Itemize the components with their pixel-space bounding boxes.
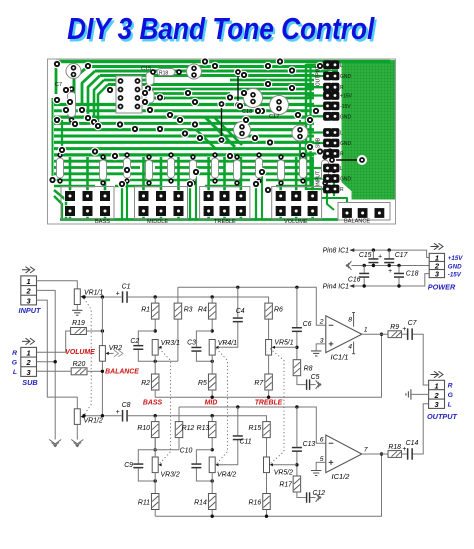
connector J4 POWER [429,253,444,277]
svg-text:VR3/2: VR3/2 [161,471,180,478]
op-amp IC1/2 [326,435,362,473]
resistor R9 [388,331,402,338]
svg-text:VOLUME: VOLUME [65,349,95,356]
svg-text:C3: C3 [187,340,196,347]
svg-text:R3: R3 [184,307,193,314]
resistor R14 [208,494,216,510]
wire SUB pin3 to R20 [36,370,71,372]
title [0,11,442,47]
node C18 top [397,264,400,267]
svg-text:OUTPUT: OUTPUT [427,412,458,421]
svg-text:C17: C17 [269,114,279,120]
node R14 bottom [211,515,214,518]
svg-text:C5: C5 [311,374,320,381]
ground left of mid rail [346,261,351,270]
ground under VR1/2 [71,440,83,447]
svg-text:4: 4 [348,344,352,351]
capacitor C3 with bracket [196,331,212,361]
node C16 top [363,264,366,267]
svg-text:1: 1 [27,349,31,358]
node R13 top [211,414,214,417]
svg-text:R18: R18 [159,71,168,77]
PCB scattered pads [53,60,62,69]
node pot VR4/2 bottom [211,479,214,482]
svg-text:VR3/1: VR3/1 [161,340,180,347]
svg-text:C6: C6 [303,321,312,328]
svg-text:VR5/2: VR5/2 [274,469,293,476]
svg-text:C10: C10 [180,447,193,454]
svg-text:3: 3 [320,337,324,344]
svg-text:IC1/2: IC1/2 [332,472,351,481]
svg-text:R10: R10 [137,425,150,432]
wire VR1/2 bottom to ground [76,424,78,439]
svg-text:R8: R8 [304,366,313,373]
wire balance vertical [101,297,103,416]
svg-text:R16: R16 [249,499,262,506]
svg-text:7: 7 [364,447,368,454]
capacitor C6 [296,287,298,359]
svg-text:+15V: +15V [340,94,352,100]
wire feedback top line channel2 [179,407,326,443]
svg-text:VR4/2: VR4/2 [217,471,236,478]
node R7 bottom [267,396,270,399]
svg-text:R20: R20 [73,361,86,368]
PCB jumper wires [222,72,363,160]
connector J3 SUB [21,347,37,376]
dashed link VR5/1-VR5/2 [270,349,284,465]
capacitor C2 with bracket [138,331,178,361]
svg-text:C8: C8 [122,402,131,409]
INPUT connector arrow [22,267,35,273]
svg-text:TREBLE: TREBLE [255,400,283,407]
resistor R19 [71,328,87,335]
node balance tap top [101,295,104,298]
wire IC1/2 output [362,453,388,455]
connector J1 INPUT [21,276,37,305]
svg-text:VOLUME: VOLUME [284,219,308,225]
wire OUTPUT pin2 to ground [411,393,428,395]
svg-text:G: G [448,392,454,399]
ground (chevron) left bus [49,440,61,447]
wire INPUT pin3 to VR1/2 [37,300,78,409]
wire feedback top line channel1 [178,287,326,325]
svg-text:1: 1 [434,381,438,390]
capacitor C14 [407,448,413,460]
wire INPUT pin1 to VR1/1 [37,281,78,289]
svg-text:R9: R9 [390,324,399,331]
ground rail mid [351,265,429,267]
svg-text:IC1/1: IC1/1 [331,352,349,361]
wire IC1/1 +input to ground [316,344,326,351]
svg-text:C7: C7 [408,320,418,327]
svg-text:C9: C9 [124,462,133,469]
wire feedback bottom line channel2 [155,454,381,516]
wire VR1/1 wiper to C1 [84,296,122,298]
resistor R10 [154,416,156,450]
svg-text:R14: R14 [194,499,207,506]
svg-text:L: L [340,166,343,172]
node C17 top [388,248,391,251]
svg-text:1: 1 [364,327,368,334]
svg-text:C15: C15 [141,66,151,72]
resistor R6 [268,319,270,340]
svg-text:8: 8 [348,317,352,324]
wire C14 to OUTPUT pin3 [413,404,429,454]
PCB resistor outline R18 [157,69,175,76]
svg-text:R4: R4 [198,307,207,314]
wire feedback bottom line channel1 [155,334,381,397]
svg-text:C4: C4 [236,308,245,315]
ground at OUTPUT pin2 [406,389,411,399]
svg-text:1: 1 [27,277,31,286]
node pot VR3/1 bottom [154,360,157,363]
power rail -15V [354,274,429,286]
resistor R15 [266,438,268,458]
capacitor C15 [372,250,374,265]
dashed link VR3/1-VR3/2 [159,349,170,465]
capacitor C17 [388,250,390,265]
svg-text:C14: C14 [406,440,419,447]
capacitor C10 with bracket [196,450,212,481]
resistor R18 [388,451,402,458]
svg-text:R11: R11 [138,499,150,506]
PCB traces [56,60,390,63]
dashed link VR4/1-VR4/2 [216,349,227,465]
PCB potentiometer footprints [61,187,114,220]
potentiometer VR3/1 [152,340,161,356]
svg-text:2: 2 [433,391,439,400]
PCB board outline [48,59,396,224]
node C13 top [295,405,298,408]
svg-text:+15V: +15V [448,255,463,262]
node pot VR4/1 top [211,329,214,332]
svg-text:TREBLE: TREBLE [214,219,236,225]
svg-text:R12: R12 [182,425,195,432]
POWER connector arrow [431,243,444,249]
wire main line channel1 to R6 [128,297,269,303]
svg-text:C18: C18 [406,271,419,278]
svg-text:Pin4 IC1: Pin4 IC1 [323,284,350,291]
potentiometer VR1/1 [74,289,83,305]
resistor R17 [293,476,301,492]
svg-text:R: R [448,383,453,390]
node pot VR3/2 top [154,448,157,451]
SUB connector arrow [22,338,35,344]
svg-text:GND: GND [448,263,462,270]
wire VR1/2 wiper to C8 [84,415,122,417]
resistor R8 [293,360,301,376]
capacitor C9 with bracket [138,450,179,481]
svg-text:R13: R13 [197,425,210,432]
PCB layout [48,57,396,225]
wire R19 to balance tap [86,330,102,332]
svg-text:R: R [340,187,344,193]
capacitor C1 [122,291,128,303]
capacitor C16 [363,266,365,287]
svg-text:R2: R2 [141,380,150,387]
wire INPUT pin2 to ground bus [37,290,56,439]
svg-text:+: + [402,326,406,333]
capacitor C4 [219,287,238,347]
node C11 top [236,405,239,408]
svg-text:5: 5 [320,456,324,463]
svg-text:+: + [388,268,392,275]
node R20 right [101,370,104,373]
svg-text:6: 6 [320,437,324,444]
capacitor C18 [398,266,400,287]
svg-text:2: 2 [26,358,32,367]
svg-text:C16: C16 [348,276,361,283]
svg-text:+: + [116,409,120,416]
node R5 bottom [211,396,214,399]
node R16 bottom [265,515,268,518]
svg-text:L: L [340,131,343,137]
dashed link VR1/1-VR1/2 [84,298,91,415]
wire SUB pin1 to R19 [36,331,70,352]
node R1 top [154,295,157,298]
svg-text:GND: GND [340,177,352,183]
svg-text:R: R [340,85,344,91]
resistor R20 [71,368,87,375]
wire main line channel2 to R15 [128,416,267,422]
svg-text:L: L [340,63,343,69]
wire SUB pin2 to ground bus [36,361,55,363]
IC1/1 power stubs pin8 pin4 [352,313,355,354]
node C18 bottom [397,284,400,287]
node VR1/1 wiper [82,295,85,298]
svg-text:-15V: -15V [448,271,462,278]
resistor R11 [151,494,159,510]
capacitor C7 [407,328,413,340]
node C15 top [372,248,375,251]
svg-text:C13: C13 [303,441,316,448]
svg-text:-15V: -15V [340,104,351,110]
OUTPUT connector arrow [431,371,444,377]
potentiometer VR5/1 [266,340,275,356]
svg-text:SUB: SUB [22,378,37,387]
PCB vertical resistor outlines row [57,158,64,178]
svg-text:R1: R1 [141,307,150,314]
ground right of C5 [316,380,321,389]
wire C6-R8 node to VR5/1 wiper [273,346,297,348]
resistor R12 [178,407,180,450]
node C6 top [295,286,298,289]
svg-text:R17: R17 [279,482,293,489]
node R4 top [211,295,214,298]
svg-text:2: 2 [319,319,324,326]
potentiometer VR4/1 [209,340,218,356]
node C17 bottom [388,264,391,267]
svg-text:Pin8 IC1: Pin8 IC1 [323,248,350,255]
node IC1/2 output [380,452,383,455]
svg-text:C17: C17 [395,252,409,259]
svg-text:GND: GND [340,74,352,80]
potentiometer VR1/2 [74,409,83,425]
svg-text:+: + [378,254,382,261]
ground at IC1/1 +input [311,351,321,356]
svg-text:SUB: SUB [316,137,322,148]
svg-text:BASS: BASS [143,400,163,407]
node SUB pin2 ground bus [54,360,57,363]
node VR1/2 wiper [82,414,85,417]
node pot VR3/1 top [154,329,157,332]
resistor R2 [151,374,159,390]
node C16 bottom [363,284,366,287]
PCB side connectors [323,60,332,69]
PCB balance connector [338,203,390,221]
svg-text:R19: R19 [72,320,85,327]
wire C7 to OUTPUT pin1 [413,334,429,385]
svg-text:L: L [13,369,17,376]
node C15 bottom [372,264,375,267]
capacitor C13 [296,407,298,476]
wire IC1/1 output [362,333,388,335]
resistor R7 [265,374,273,390]
svg-text:C2: C2 [130,338,139,345]
PCB capacitor C15 C16 outlines [146,72,154,85]
svg-text:MID: MID [205,400,218,407]
svg-text:R: R [340,152,344,158]
svg-text:VR5/1: VR5/1 [274,340,293,347]
svg-text:VR4/1: VR4/1 [218,340,237,347]
svg-text:2: 2 [26,287,32,296]
svg-text:R7: R7 [254,380,264,387]
node C4 top [236,286,239,289]
potentiometer VR2 [99,346,108,362]
resistor R4 [211,297,213,331]
node R10 top [154,414,157,417]
node pot VR3/2 bottom [154,479,157,482]
node pot VR4/2 top [211,448,214,451]
svg-text:R: R [12,350,17,357]
resistor R1 [154,297,156,331]
node R19 right [101,329,104,332]
node pot VR4/1 bottom [211,360,214,363]
svg-text:OUTPUT: OUTPUT [316,66,322,87]
svg-text:C1: C1 [122,283,131,290]
svg-text:VR1/2: VR1/2 [84,417,103,424]
svg-text:INPUT: INPUT [19,306,41,315]
node IC1/1 output [380,333,383,336]
resistor R16 [263,494,271,510]
VR2 wiper arrow [109,352,114,354]
svg-text:R6: R6 [274,307,283,314]
wire R20 to balance vertical [87,370,102,372]
wire VR1/1 bottom to ground [76,305,78,310]
svg-text:VR1/1: VR1/1 [84,290,103,297]
capacitor C11 [219,407,238,465]
svg-text:C15: C15 [359,252,372,259]
svg-text:GND: GND [340,114,352,120]
wire IC1/2 +input to ground [316,462,326,470]
svg-text:C11: C11 [240,439,252,446]
potentiometer VR5/2 [264,457,273,473]
wire C13-R17 node to VR5/2 wiper [273,464,297,466]
svg-text:BALANCE: BALANCE [105,368,139,375]
node balance tap bottom [101,414,104,417]
resistor R13 [211,416,213,450]
svg-text:R5: R5 [198,380,207,387]
svg-text:INPUT: INPUT [316,171,322,186]
svg-text:BALANCE: BALANCE [344,219,370,225]
svg-text:BASS: BASS [95,219,110,225]
wire R18 to C14 [402,453,407,455]
connector J2 OUTPUT [429,380,445,408]
svg-text:G: G [12,359,18,366]
resistor R5 [208,374,216,390]
ground right of C12 [316,493,321,502]
svg-text:+: + [402,446,406,453]
ground under VR1/1 [72,310,82,315]
svg-text:MIDDLE: MIDDLE [147,219,168,225]
capacitor C5 [306,379,310,390]
power rail +15V [354,250,429,257]
capacitor C12 [306,492,310,503]
node VR5/1 wiper line [295,346,298,349]
svg-text:GND: GND [340,141,352,147]
PCB diode outline below C7 [68,92,76,117]
capacitor C8 [122,410,128,422]
wire R9 to C7 [402,333,407,335]
svg-text:R18: R18 [388,444,401,451]
svg-text:R15: R15 [249,425,262,432]
svg-text:L: L [448,401,452,408]
op-amp IC1/1 [326,316,362,353]
resistor R3 [177,287,179,361]
svg-text:C18: C18 [242,109,252,115]
svg-text:C7: C7 [55,82,62,88]
potentiometer VR4/2 [209,457,218,473]
svg-text:POWER: POWER [428,282,456,291]
svg-text:+: + [116,290,120,297]
node VR5/2 wiper line [295,463,298,466]
PCB IC footprint [116,76,142,113]
PCB electrolytic capacitor outlines [66,64,81,79]
ground at IC1/2 +input [311,471,321,476]
potentiometer VR3/2 [152,457,161,473]
